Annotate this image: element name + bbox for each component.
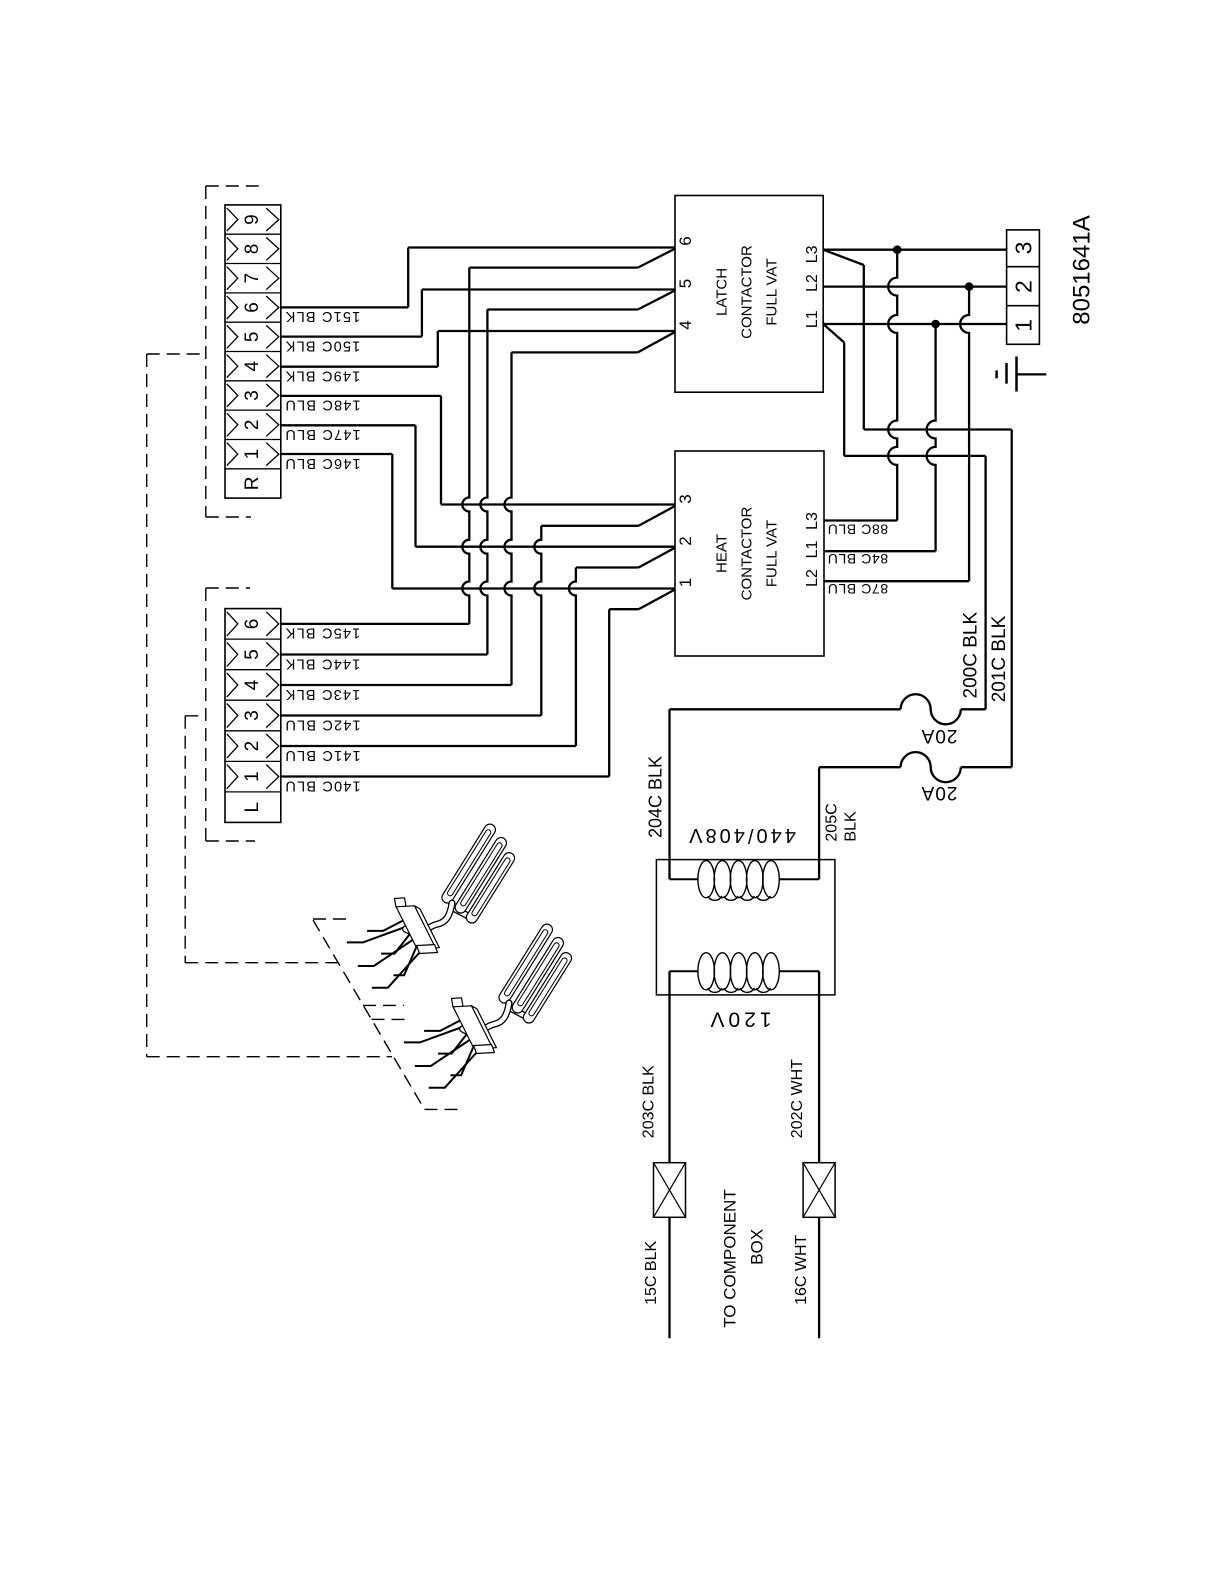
svg-text:200C BLK: 200C BLK bbox=[961, 612, 982, 699]
svg-text:204C BLK: 204C BLK bbox=[646, 756, 666, 838]
svg-text:149C BLK: 149C BLK bbox=[285, 368, 361, 384]
svg-text:6: 6 bbox=[242, 302, 263, 313]
svg-text:203C BLK: 203C BLK bbox=[641, 1065, 658, 1138]
svg-text:87C BLU: 87C BLU bbox=[827, 581, 888, 597]
svg-text:201C BLK: 201C BLK bbox=[989, 615, 1010, 702]
svg-text:140C BLU: 140C BLU bbox=[284, 777, 361, 793]
svg-text:FULL VAT: FULL VAT bbox=[764, 258, 781, 325]
svg-text:88C BLU: 88C BLU bbox=[827, 522, 888, 538]
svg-text:L1: L1 bbox=[804, 541, 821, 559]
svg-text:6: 6 bbox=[676, 236, 695, 245]
svg-text:TO COMPONENT: TO COMPONENT bbox=[721, 1189, 740, 1328]
svg-text:2: 2 bbox=[242, 741, 263, 752]
svg-text:4: 4 bbox=[242, 360, 263, 371]
svg-text:BLK: BLK bbox=[842, 811, 859, 842]
svg-text:2: 2 bbox=[1011, 280, 1037, 293]
svg-text:2: 2 bbox=[676, 536, 695, 545]
svg-text:FULL VAT: FULL VAT bbox=[764, 520, 781, 587]
svg-text:20A: 20A bbox=[921, 725, 958, 746]
svg-text:HEAT: HEAT bbox=[714, 534, 731, 573]
svg-text:1: 1 bbox=[1011, 319, 1037, 332]
svg-text:2: 2 bbox=[242, 420, 263, 431]
svg-text:15C BLK: 15C BLK bbox=[643, 1241, 660, 1305]
svg-text:BOX: BOX bbox=[747, 1229, 766, 1265]
svg-text:8051641A: 8051641A bbox=[1069, 215, 1096, 324]
svg-text:9: 9 bbox=[242, 214, 263, 225]
svg-text:R: R bbox=[242, 477, 263, 491]
svg-text:L3: L3 bbox=[804, 512, 821, 530]
svg-text:L2: L2 bbox=[804, 569, 821, 587]
svg-text:120V: 120V bbox=[706, 1008, 771, 1031]
svg-text:144C BLK: 144C BLK bbox=[285, 655, 361, 671]
svg-text:141C BLU: 141C BLU bbox=[284, 747, 361, 763]
svg-text:150C BLK: 150C BLK bbox=[285, 337, 361, 353]
svg-text:3: 3 bbox=[676, 494, 695, 503]
svg-text:143C BLK: 143C BLK bbox=[285, 686, 361, 702]
svg-text:20A: 20A bbox=[921, 782, 958, 803]
svg-text:145C BLK: 145C BLK bbox=[285, 625, 361, 641]
svg-text:440/408V: 440/408V bbox=[686, 824, 796, 846]
svg-text:6: 6 bbox=[242, 619, 263, 630]
svg-text:CONTACTOR: CONTACTOR bbox=[739, 245, 756, 339]
svg-text:84C BLU: 84C BLU bbox=[827, 551, 888, 567]
svg-text:147C BLU: 147C BLU bbox=[284, 426, 361, 442]
svg-text:5: 5 bbox=[676, 279, 695, 288]
svg-text:151C BLK: 151C BLK bbox=[285, 308, 361, 324]
svg-text:7: 7 bbox=[242, 273, 263, 284]
svg-text:5: 5 bbox=[242, 332, 263, 343]
svg-text:5: 5 bbox=[242, 649, 263, 660]
svg-text:142C BLU: 142C BLU bbox=[284, 716, 361, 732]
svg-text:L: L bbox=[242, 802, 263, 813]
svg-text:8: 8 bbox=[242, 244, 263, 255]
svg-text:1: 1 bbox=[676, 578, 695, 587]
svg-text:3: 3 bbox=[242, 390, 263, 401]
svg-text:3: 3 bbox=[242, 710, 263, 721]
svg-text:148C BLU: 148C BLU bbox=[284, 397, 361, 413]
svg-text:205C: 205C bbox=[824, 803, 841, 841]
svg-text:L2: L2 bbox=[804, 274, 821, 292]
svg-text:4: 4 bbox=[676, 320, 695, 329]
svg-text:202C WHT: 202C WHT bbox=[789, 1059, 806, 1138]
svg-text:L1: L1 bbox=[804, 310, 821, 328]
svg-text:1: 1 bbox=[242, 449, 263, 460]
svg-text:3: 3 bbox=[1011, 242, 1037, 255]
svg-text:16C WHT: 16C WHT bbox=[793, 1234, 810, 1304]
svg-text:CONTACTOR: CONTACTOR bbox=[739, 507, 756, 601]
svg-text:LATCH: LATCH bbox=[714, 268, 731, 316]
svg-text:1: 1 bbox=[242, 771, 263, 782]
svg-text:4: 4 bbox=[242, 679, 263, 690]
svg-text:L3: L3 bbox=[804, 245, 821, 263]
svg-text:146C BLU: 146C BLU bbox=[284, 455, 361, 471]
